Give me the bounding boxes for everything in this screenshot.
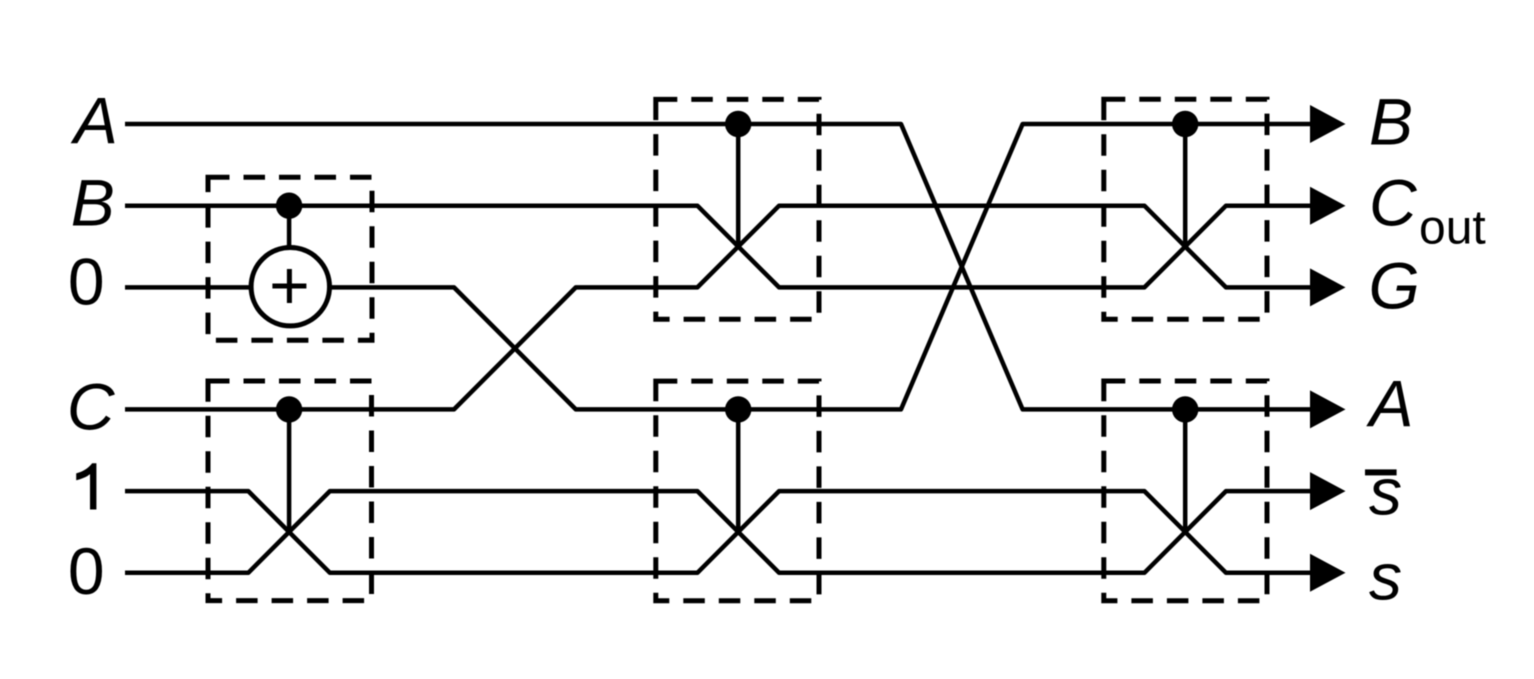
svg-text:B: B <box>1369 85 1413 159</box>
svg-text:s: s <box>1369 540 1402 614</box>
svg-text:A: A <box>1366 367 1414 441</box>
svg-text:out: out <box>1419 202 1486 255</box>
svg-text:G: G <box>1369 249 1420 323</box>
svg-text:C: C <box>1369 166 1418 240</box>
svg-text:A: A <box>70 84 118 158</box>
svg-text:0: 0 <box>68 245 105 319</box>
svg-text:s: s <box>1369 455 1402 529</box>
svg-text:B: B <box>71 166 115 240</box>
svg-text:0: 0 <box>68 534 105 608</box>
svg-text:C: C <box>67 370 116 444</box>
